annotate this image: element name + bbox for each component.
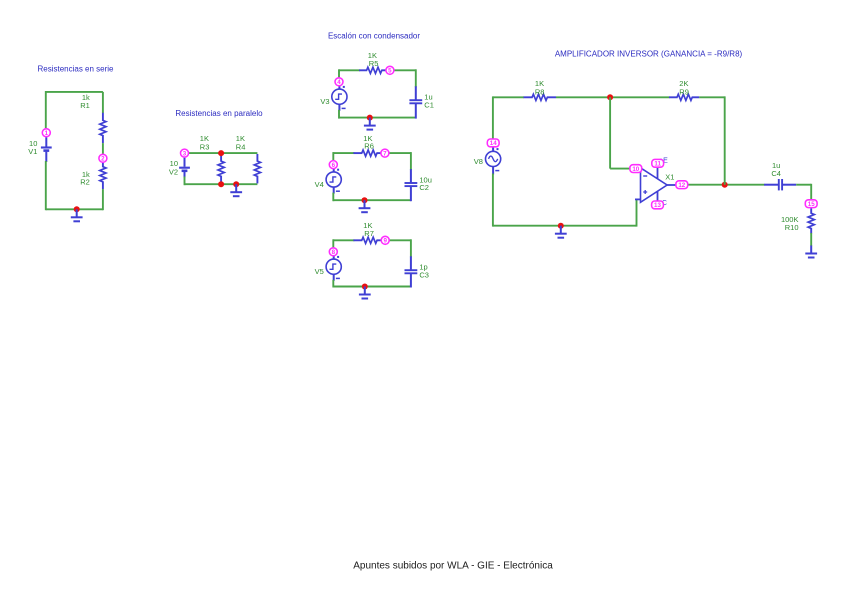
wire right middle (circuit 1) [102,143,104,154]
svg-text:10: 10 [632,166,639,173]
wire bottom (V8 to op-amp +) [493,225,637,227]
ground (circuit 1) [71,209,83,221]
node 12 [676,181,688,189]
node 11 [652,159,664,167]
resistor R1 [100,113,106,143]
capacitor C3 [405,256,418,287]
svg-text:Escalón con condensador: Escalón con condensador [328,32,420,41]
ground (V5 circuit) [359,287,371,299]
wire left upper (V8 top) [492,96,494,138]
op-amp X1 [632,160,678,203]
wire + input vertical [636,199,638,226]
wire top-right (R5 circuit) [393,69,415,71]
resistor R10 [808,208,814,233]
svg-text:R1: R1 [80,101,90,110]
svg-text:V2: V2 [169,167,178,176]
wire right upper (C3) [410,239,412,257]
svg-text:5: 5 [388,68,392,75]
svg-text:V1: V1 [28,147,37,156]
wire bottom (V3 circuit) [339,117,416,119]
battery V1 [41,137,52,162]
svg-text:R9: R9 [679,87,689,96]
node 10 [630,165,642,173]
node 4 [335,78,343,86]
node 3 [181,149,189,157]
resistor R6 [353,150,380,156]
junction dot ground (V4 circuit) [362,197,368,203]
capacitor C2 [405,169,418,201]
wire left lower (circuit 2) [184,177,186,186]
svg-text:7: 7 [383,150,387,157]
junction dot R3 top [218,150,224,156]
svg-text:C4: C4 [771,169,781,178]
wire bottom (circuit 2) [185,183,258,185]
wire top-middle (R8 to R9) [556,96,670,98]
svg-text:R6: R6 [364,142,374,151]
wire left upper (circuit 1) [45,91,47,128]
wire left upper (V3) [338,69,340,78]
wire bottom (circuit 1) [46,208,103,210]
wire top (circuit 1) [46,91,103,93]
node 2 [99,154,107,162]
svg-text:R10: R10 [785,223,799,232]
ground (V4 circuit) [359,200,371,212]
svg-text:V5: V5 [315,267,324,276]
resistor R7 [353,237,380,243]
wire top-right (R6 circuit) [388,152,411,154]
svg-text:Resistencias en serie: Resistencias en serie [37,65,114,74]
battery V2 [179,158,190,178]
wire top-left (V5 circuit) [333,239,354,241]
svg-text:1: 1 [45,130,49,137]
svg-text:R7: R7 [364,229,374,238]
node 9 [381,236,389,244]
capacitor C1 [409,86,422,118]
wire output (node 12 to C4) [688,184,765,186]
svg-text:C3: C3 [419,270,429,279]
wire right lower (circuit 1) [102,189,104,210]
node 5 [386,66,394,74]
wire left lower (V5) [332,280,334,288]
node 6 [329,161,337,169]
svg-text:C2: C2 [419,183,429,192]
svg-text:R2: R2 [80,178,90,187]
pulse source V5 [326,252,341,281]
svg-text:V4: V4 [315,180,324,189]
svg-text:13: 13 [654,202,661,209]
svg-text:R8: R8 [535,87,545,96]
wire right vertical upper (to node 15) [810,184,812,200]
svg-text:V8: V8 [474,157,483,166]
wire left lower (V3) [338,110,340,119]
junction dot ground (V3 circuit) [367,115,373,121]
svg-text:4: 4 [337,79,341,86]
node 7 [381,149,389,157]
resistor R2 [100,163,106,189]
svg-text:14: 14 [490,140,497,147]
wire bottom (V4 circuit) [333,199,411,201]
wire C4 to corner [796,184,811,186]
sine source V8 [486,147,501,174]
wire feedback vertical [609,97,611,168]
svg-text:2: 2 [101,156,105,163]
ground (circuit 2) [230,184,242,196]
resistor R9 [669,94,699,100]
wire left upper (V5) [332,239,334,248]
junction dot ground (circuit 2) [233,181,239,187]
svg-text:Apuntes subidos por WLA - GIE: Apuntes subidos por WLA - GIE - Electrón… [353,561,553,572]
wire right upper (C2) [410,152,412,170]
svg-text:6: 6 [332,162,336,169]
wire left lower (V8 bottom) [492,174,494,227]
svg-text:12: 12 [678,182,685,189]
svg-text:Resistencias en paralelo: Resistencias en paralelo [175,109,263,118]
junction dot (circuit 1 ground) [74,206,80,212]
ground (V3 circuit) [364,118,376,130]
node 8 [329,248,337,256]
ground (R10) [805,246,817,258]
resistor R3 [218,154,224,183]
wire top-left (V4 circuit) [333,152,354,154]
junction dot (output node) [722,182,728,188]
wire top-left (to R8) [493,96,524,98]
wire left lower (V4) [332,193,334,202]
svg-text:3: 3 [183,150,187,157]
wire left upper (V4) [332,152,334,161]
wire right upper (circuit 1) [102,92,104,113]
wire top (circuit 2) [185,152,258,154]
node 13 [652,201,664,209]
junction dot ground (V5 circuit) [362,284,368,290]
resistor R4 [254,154,260,183]
svg-text:9: 9 [383,238,387,245]
svg-text:R5: R5 [369,59,379,68]
pulse source V4 [326,164,341,193]
svg-text:V3: V3 [320,97,329,106]
wire bottom (V5 circuit) [333,286,411,288]
resistor R8 [524,94,557,100]
wire right upper (C1) [415,69,417,87]
junction dot (feedback node) [607,94,613,100]
resistor R5 [359,67,385,73]
svg-text:15: 15 [808,201,815,208]
wire top-right (R7 circuit) [389,239,411,241]
wire top-left (V3 circuit) [339,69,360,71]
capacitor C4 [764,179,796,190]
svg-text:8: 8 [332,249,336,256]
pulse source V3 [332,82,347,111]
node 14 [487,139,499,147]
svg-text:C1: C1 [424,100,434,109]
junction dot (bottom ground) [558,223,564,229]
svg-text:11: 11 [654,161,661,168]
node 1 [42,129,50,137]
svg-text:R4: R4 [236,142,246,151]
wire left lower (circuit 1) [45,161,47,210]
junction dot R3 bottom [218,181,224,187]
svg-text:X1: X1 [665,173,674,182]
wire output feedback vertical [724,96,726,184]
wire top-right (R9 to corner) [699,96,724,98]
node 15 [805,200,817,208]
svg-text:AMPLIFICADOR INVERSOR (GANANCI: AMPLIFICADOR INVERSOR (GANANCIA = -R9/R8… [555,50,743,59]
ground (op-amp circuit) [555,226,567,238]
wire right vertical lower (R10 to ground) [810,233,812,246]
wire feedback horizontal (to node 10) [610,168,630,170]
svg-text:R3: R3 [200,142,210,151]
